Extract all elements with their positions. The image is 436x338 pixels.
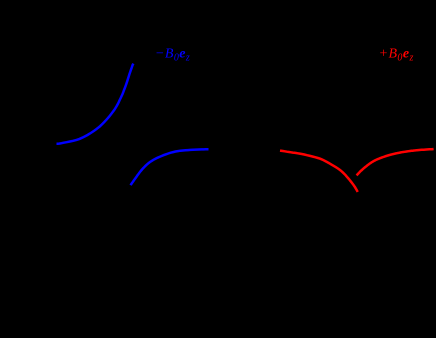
svg-text:+B0ez: +B0ez xyxy=(379,47,414,64)
label -B0ez (blue) xyxy=(155,47,190,64)
svg-text:−B0ez: −B0ez xyxy=(155,47,190,64)
blue curve: saturating central branch xyxy=(131,149,209,185)
blue curve: upper-left steep branch (E- for -B0 ez) xyxy=(57,64,134,144)
red curve: ascending branch after cusp (E- for +B0 ez) xyxy=(357,149,434,175)
red curve: descending branch into cusp xyxy=(280,151,358,192)
label +B0ez (red) xyxy=(379,47,414,64)
